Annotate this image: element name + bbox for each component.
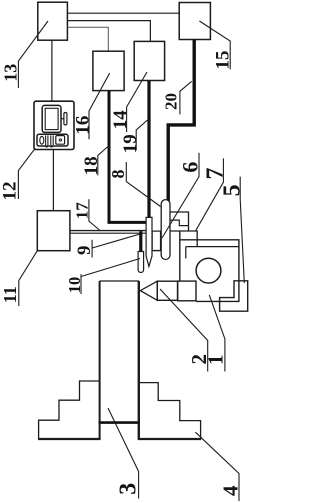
- computer 12 system unit: [37, 134, 68, 146]
- bus wire 17 lower: [70, 232, 152, 234]
- holder rect between probes: [152, 231, 160, 250]
- svg-text:9: 9: [74, 246, 95, 256]
- bearing square at block bottom-left: [178, 281, 196, 301]
- column 3: [100, 280, 139, 282]
- svg-text:19: 19: [120, 134, 141, 153]
- thick drop cable to hanging probe 10: [139, 231, 142, 252]
- column bottom thick line: [99, 421, 140, 424]
- computer 12 monitor: [42, 105, 61, 132]
- svg-text:13: 13: [1, 64, 21, 82]
- leader 9: [92, 234, 140, 258]
- svg-text:3: 3: [116, 483, 142, 495]
- svg-text:18: 18: [81, 156, 102, 175]
- svg-text:20: 20: [161, 93, 180, 110]
- leader 6: [162, 153, 199, 238]
- svg-text:6: 6: [177, 162, 202, 173]
- leader 10: [81, 259, 140, 295]
- leader 11: [19, 251, 38, 306]
- box 14: [134, 41, 164, 80]
- svg-text:16: 16: [72, 116, 93, 135]
- leader 7: [195, 158, 223, 231]
- leader 19: [136, 120, 147, 150]
- svg-text:4: 4: [218, 485, 242, 496]
- svg-text:12: 12: [0, 182, 21, 201]
- svg-text:10: 10: [65, 277, 84, 294]
- computer 12 monitor stand: [61, 118, 64, 120]
- bracket plate top edge: [171, 231, 198, 247]
- wire: box13 down to computer 12: [51, 40, 53, 101]
- box 16: [93, 51, 124, 90]
- svg-text:15: 15: [212, 51, 233, 70]
- bus wire 17 upper: box11 to pen probe: [70, 230, 146, 232]
- left staircase 4a: [39, 381, 100, 439]
- svg-text:11: 11: [0, 286, 20, 303]
- wire A: box13 to box15: [67, 12, 179, 14]
- leader 18: [98, 146, 109, 175]
- wire B: box13 to box14 top: [67, 21, 150, 42]
- leader 15: [199, 21, 230, 69]
- bracket inner step: [170, 220, 188, 226]
- thick cable 19: box14 down to pen probe: [147, 81, 150, 218]
- svg-text:8: 8: [108, 170, 128, 179]
- box 15: [179, 3, 210, 40]
- base bottom right: [138, 438, 201, 440]
- bracket rect A on capsule right: [170, 212, 188, 231]
- L-foot bracket 5 bottom-right: [220, 281, 248, 311]
- box 13 (controller): [38, 2, 68, 40]
- tool rect 2: [157, 281, 177, 300]
- spindle block 1 (with motor circle): [180, 231, 239, 301]
- motor circle: [196, 258, 221, 283]
- block inner inset: [186, 247, 239, 259]
- leader 20: [180, 81, 192, 114]
- thick cable 20: box15 down, left, down to big sensor capsule: [168, 40, 194, 204]
- computer 12 outer case: [34, 101, 74, 149]
- leader 1: [209, 295, 225, 372]
- leader 2: [160, 289, 208, 372]
- leader 3: [108, 408, 139, 499]
- tool tip triangle: [140, 281, 157, 300]
- leader 17: [89, 199, 100, 230]
- link line probe to capsule: [152, 250, 161, 252]
- leader 8: [126, 162, 160, 207]
- big sensor capsule 8: [161, 200, 170, 260]
- leader 4: [195, 432, 239, 501]
- base bottom left: [38, 438, 101, 440]
- right staircase 4: [139, 383, 201, 439]
- svg-text:7: 7: [203, 168, 229, 180]
- pen probe 9 (from cable 19): [146, 217, 152, 266]
- computer 12 feet ticks: [45, 146, 47, 148]
- box 11: [37, 211, 70, 251]
- leader 12: [18, 148, 35, 199]
- thick cable 18: box16 down then right to pen probe: [109, 91, 146, 223]
- wire: computer 12 down to box 11: [52, 150, 54, 211]
- hanging probe capsule 10: [138, 252, 144, 273]
- leader 14: [127, 72, 147, 132]
- wire C: box13 to box16 top: [67, 27, 108, 51]
- svg-text:14: 14: [110, 110, 131, 130]
- leader 5: [240, 177, 244, 283]
- svg-text:17: 17: [72, 202, 91, 220]
- leader 16: [89, 73, 110, 139]
- svg-text:5: 5: [219, 184, 245, 196]
- svg-text:1: 1: [204, 355, 228, 366]
- leader 13: [18, 21, 48, 88]
